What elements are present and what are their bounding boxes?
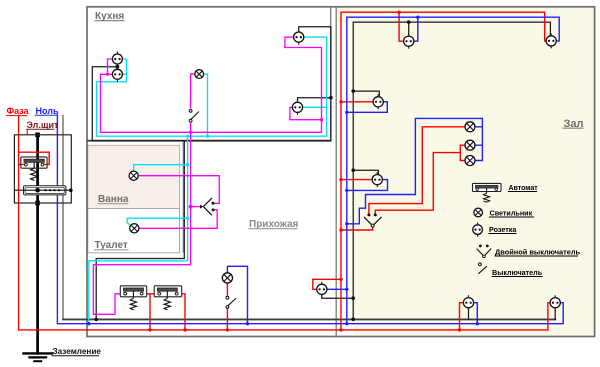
svg-text:Заземление: Заземление	[53, 347, 102, 356]
svg-text:Автомат: Автомат	[509, 185, 539, 192]
svg-text:Двойной выключатель: Двойной выключатель	[495, 248, 581, 257]
svg-text:Фаза: Фаза	[7, 106, 30, 116]
svg-text:Эл.щит: Эл.щит	[27, 120, 60, 130]
svg-text:Светильник: Светильник	[490, 209, 533, 218]
svg-text:Выключатель: Выключатель	[492, 268, 543, 277]
svg-text:Ноль: Ноль	[36, 106, 59, 116]
svg-text:Розетка: Розетка	[489, 225, 517, 234]
